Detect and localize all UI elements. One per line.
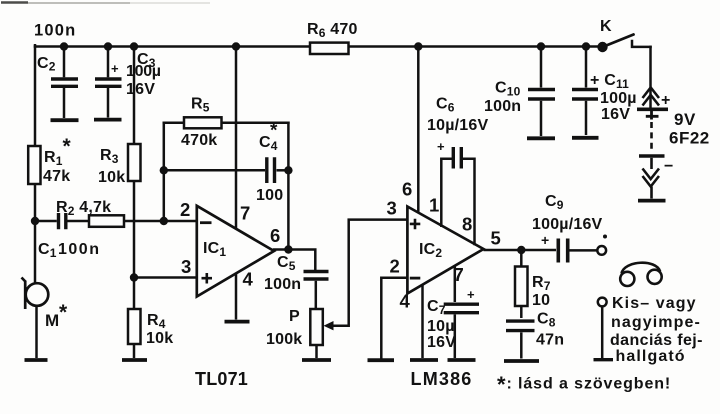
- label IC1 pin 6: [270, 225, 280, 246]
- wire top supply rail left segment: [35, 45, 310, 48]
- svg-text:100k: 100k: [266, 331, 302, 348]
- label R2 4,7k: [56, 199, 111, 218]
- svg-text:470k: 470k: [181, 132, 217, 149]
- battery BT1 cell1 long plate: [637, 108, 668, 112]
- battery BT1 cell1 short plate: [646, 111, 659, 120]
- svg-text:100µ: 100µ: [600, 90, 637, 107]
- capacitor C2 lead bottom: [63, 88, 66, 118]
- svg-text:IC2: IC2: [419, 241, 442, 260]
- ground return terminal: [594, 358, 614, 361]
- ground C10: [527, 136, 555, 140]
- svg-text:+: +: [437, 139, 445, 154]
- label C3 value 100u: [126, 63, 161, 80]
- label TL071: [195, 369, 248, 389]
- capacitor C2: [51, 79, 78, 86]
- wire feedback left vertical: [163, 123, 166, 221]
- ground IC2 pin4: [410, 358, 438, 362]
- ground mic: [25, 358, 48, 362]
- svg-text:1: 1: [429, 195, 439, 216]
- ground C3: [94, 118, 122, 122]
- ground IC1 pin4: [225, 320, 250, 324]
- wire IC1 output: [274, 250, 315, 270]
- label IC1 pin 7: [240, 203, 250, 224]
- label C6 polarity +: [437, 139, 445, 154]
- svg-text:16V: 16V: [126, 81, 155, 98]
- op-amp IC1 TL071: [197, 206, 274, 297]
- junction rail/C2: [60, 42, 68, 50]
- svg-text:5: 5: [491, 228, 501, 249]
- wire C8 to ground: [520, 332, 523, 358]
- junction R1/C1/mic: [31, 217, 39, 225]
- junction rail/R3: [130, 42, 138, 50]
- capacitor C3 lead bottom: [107, 88, 110, 118]
- label C7 polarity +: [467, 287, 475, 302]
- wire rail left drop to R1: [34, 45, 37, 146]
- svg-text:10k: 10k: [146, 330, 173, 347]
- IC1 minus input mark: [200, 221, 212, 224]
- svg-text:*: lásd a szövegben!: *: lásd a szövegben!: [497, 372, 671, 397]
- svg-text:100n: 100n: [58, 241, 100, 258]
- junction feedback right / C4: [284, 166, 292, 174]
- wire R2 to IC1 pin2: [124, 220, 196, 223]
- ground C2: [51, 118, 79, 122]
- capacitor C10 lead bottom: [540, 101, 543, 136]
- svg-text:10µ: 10µ: [427, 318, 455, 335]
- ground IC2 pin2: [368, 358, 395, 362]
- capacitor C9: [558, 239, 567, 263]
- headphone icon: [620, 263, 662, 286]
- label C8 value 47n: [536, 332, 564, 349]
- label IC1 pin 3: [181, 256, 191, 277]
- junction output/R7: [517, 246, 525, 254]
- label C4 value 100: [256, 187, 283, 204]
- svg-text:100µ/16V: 100µ/16V: [532, 216, 603, 233]
- label battery minus: [664, 158, 674, 175]
- switch K right contact: [632, 41, 651, 47]
- battery BT1 plus clip arrow: [643, 88, 660, 106]
- svg-text:R3: R3: [100, 147, 119, 166]
- IC2 minus input mark: [410, 277, 421, 280]
- wire IC2 pin6 riser: [417, 47, 420, 214]
- label R1: [44, 135, 72, 168]
- capacitor C1: [59, 213, 66, 229]
- potentiometer P wiper arrow: [324, 321, 349, 330]
- battery ground bar: [638, 199, 666, 203]
- junction rail/C11: [582, 42, 590, 50]
- svg-text:R1: R1: [44, 149, 63, 168]
- junction rail/C3: [104, 42, 112, 50]
- label R3 value 10k: [98, 169, 125, 186]
- capacitor C7: [444, 304, 479, 313]
- capacitor C3 lead top: [107, 47, 110, 78]
- junction IC1 output / feedback: [284, 245, 292, 253]
- resistor R5: [184, 117, 222, 128]
- label C10 value 100n: [484, 98, 521, 115]
- svg-text:7: 7: [454, 264, 464, 285]
- junction rail/C10: [537, 42, 545, 50]
- wire C4 branch left: [164, 169, 265, 172]
- svg-text:R5: R5: [191, 96, 210, 115]
- label K: [600, 18, 612, 35]
- svg-text:C6: C6: [436, 96, 455, 115]
- wire mic node to C1: [35, 220, 57, 223]
- label C11 value 100u: [600, 90, 637, 107]
- label IC1 pin 4: [243, 269, 254, 290]
- label C11 with +: [590, 72, 629, 91]
- node output terminal hot: [597, 246, 606, 255]
- svg-text:8: 8: [462, 214, 472, 235]
- capacitor C2 lead top: [63, 47, 66, 78]
- battery BT1 dashed link: [650, 122, 653, 152]
- wire C5 to P: [315, 281, 318, 309]
- svg-text:100n: 100n: [484, 98, 521, 115]
- label C10: [495, 80, 521, 99]
- svg-text:+: +: [467, 287, 475, 302]
- wire IC2 pin4 drop: [421, 285, 424, 358]
- label C9: [545, 193, 564, 212]
- svg-text:100n: 100n: [34, 22, 76, 40]
- label R4: [147, 312, 166, 331]
- switch K blade: [603, 35, 634, 48]
- svg-text:*: *: [59, 301, 68, 324]
- wire R4 to ground: [133, 344, 136, 358]
- label 9V: [674, 110, 696, 129]
- capacitor C10: [528, 90, 555, 100]
- svg-text:16V: 16V: [427, 334, 456, 351]
- svg-text:47k: 47k: [43, 168, 70, 185]
- svg-text:C9: C9: [545, 193, 564, 212]
- wire IC1 pin4 drop: [235, 274, 238, 320]
- label C2: [37, 55, 56, 74]
- capacitor C5: [304, 272, 329, 280]
- label headphone text line3: [610, 332, 703, 349]
- svg-text:R2 4,7k: R2 4,7k: [56, 199, 111, 218]
- label C1: [38, 241, 57, 260]
- label IC2: [419, 241, 442, 260]
- battery BT1 cell2 long plate: [639, 154, 665, 158]
- svg-text:16V: 16V: [601, 106, 630, 123]
- wire IC1 pin7 riser: [235, 47, 238, 230]
- wire C1 to R2: [68, 220, 90, 223]
- junction feedback left / C4 branch: [160, 166, 168, 174]
- label R3: [100, 147, 119, 166]
- label IC2 pin 4: [400, 291, 411, 312]
- svg-text:2: 2: [390, 256, 400, 277]
- wire R7 top lead: [520, 250, 523, 267]
- svg-text:*: *: [270, 121, 278, 142]
- svg-text:4: 4: [400, 291, 411, 312]
- wire R3 column top: [133, 47, 136, 145]
- label R6 470: [307, 21, 358, 40]
- label headphone text line2: [611, 314, 701, 331]
- label C3 polarity +: [111, 61, 119, 76]
- battery BT1 bottom stem: [650, 187, 653, 199]
- switch K pivot: [597, 42, 607, 52]
- svg-text:10k: 10k: [98, 169, 125, 186]
- svg-text:K: K: [600, 18, 612, 35]
- wire IC2 pin1 riser: [441, 159, 451, 226]
- label C6: [436, 96, 455, 115]
- wire top supply rail right segment: [348, 45, 603, 48]
- svg-text:−: −: [664, 158, 674, 175]
- svg-text:7: 7: [240, 203, 250, 224]
- svg-text:danciás fej-: danciás fej-: [610, 332, 703, 349]
- svg-text:10µ/16V: 10µ/16V: [427, 117, 488, 134]
- svg-text:10: 10: [532, 292, 550, 309]
- wire feedback right vertical: [287, 123, 290, 250]
- label R5 value 470k: [181, 132, 217, 149]
- junction bias node / IC1 pin3: [130, 273, 138, 281]
- svg-text:+: +: [661, 92, 671, 109]
- label P value 100k: [266, 331, 302, 348]
- resistor R6: [310, 43, 349, 54]
- label IC1 pin 2: [180, 199, 190, 220]
- capacitor C11 electrolytic: [572, 90, 598, 100]
- label C3: [137, 51, 156, 70]
- junction rail/IC1 pin7: [232, 42, 240, 50]
- label P: [289, 308, 300, 325]
- label C5 value 100n: [264, 276, 301, 293]
- svg-text:M: M: [45, 311, 59, 330]
- label C11 value 16V: [601, 106, 630, 123]
- svg-text:Kis– vagy: Kis– vagy: [612, 295, 697, 312]
- capacitor C4: [267, 157, 275, 183]
- wire R7 to C8: [520, 306, 523, 318]
- capacitor C6: [453, 147, 461, 169]
- scan edge line top: [1, 1, 210, 4]
- svg-text:+ C11: + C11: [590, 72, 629, 91]
- svg-text:R6 470: R6 470: [307, 21, 358, 40]
- svg-text:3: 3: [181, 256, 191, 277]
- junction rail/IC2 pin6: [414, 42, 422, 50]
- label IC2 pin 8: [462, 214, 472, 235]
- svg-text:2: 2: [180, 199, 190, 220]
- svg-text:TL071: TL071: [195, 369, 248, 389]
- label IC2 pin 6: [402, 179, 412, 200]
- label headphone text line1: [612, 295, 697, 312]
- svg-text:47n: 47n: [536, 332, 564, 349]
- node output terminal return: [598, 298, 607, 307]
- resistor R7: [515, 267, 528, 307]
- label IC2 pin 1: [429, 195, 439, 216]
- svg-text:100µ: 100µ: [126, 63, 161, 80]
- ground P: [302, 358, 331, 362]
- svg-text:100n: 100n: [264, 276, 301, 293]
- svg-text:hallgató: hallgató: [616, 348, 686, 365]
- label IC1: [203, 240, 226, 259]
- svg-text:4: 4: [243, 269, 254, 290]
- resistor R2: [89, 215, 124, 227]
- svg-text:C2: C2: [37, 55, 56, 74]
- svg-text:nagyimpe-: nagyimpe-: [611, 314, 701, 331]
- svg-text:9V: 9V: [674, 110, 696, 129]
- battery BT1 minus clip arrow: [643, 169, 660, 187]
- ground C7: [448, 358, 476, 362]
- wire C9 to output terminal: [570, 249, 597, 252]
- label C9 polarity +: [541, 232, 549, 248]
- potentiometer P: [310, 309, 323, 345]
- resistor R3: [128, 144, 141, 181]
- capacitor C10 lead top: [540, 47, 543, 88]
- label C7 value 10u: [427, 318, 455, 335]
- label R1 value 47k: [43, 168, 70, 185]
- label IC2 pin 7: [454, 264, 464, 285]
- capacitor C11 lead top: [585, 47, 588, 88]
- label IC2 pin 5: [491, 228, 501, 249]
- wire IC2 pin8 riser: [463, 159, 475, 244]
- wire P to ground: [315, 345, 318, 358]
- wire battery feed: [649, 47, 652, 107]
- capacitor C8: [506, 321, 535, 331]
- label footnote asterisk note: [497, 372, 671, 397]
- ground C8: [504, 359, 539, 363]
- battery BT1 cell2 stem: [650, 158, 653, 169]
- label R5: [191, 96, 210, 115]
- svg-text:*: *: [63, 135, 72, 158]
- svg-text:C7: C7: [427, 298, 446, 317]
- svg-text:C8: C8: [537, 311, 556, 330]
- svg-text:6: 6: [270, 225, 280, 246]
- label 6F22: [669, 129, 710, 148]
- label IC2 pin 2: [390, 256, 400, 277]
- label C4: [259, 121, 278, 154]
- wire C4 branch right: [277, 169, 289, 172]
- label R7: [532, 274, 551, 293]
- wire wiper riser to IC2 pin3: [349, 220, 407, 326]
- svg-text:6F22: 6F22: [669, 129, 710, 148]
- svg-text:+: +: [541, 232, 549, 248]
- svg-text:R7: R7: [532, 274, 551, 293]
- wire IC2 pin2 to ground: [381, 278, 406, 358]
- svg-text:100: 100: [256, 187, 283, 204]
- label C3 value 16V: [126, 81, 155, 98]
- ground C11: [572, 136, 599, 140]
- wire IC2 pin7 drop: [454, 267, 457, 303]
- resistor R1: [28, 146, 40, 184]
- label C1 value 100n: [58, 241, 100, 258]
- label LM386: [411, 369, 473, 389]
- svg-text:C1: C1: [38, 241, 57, 260]
- svg-text:6: 6: [402, 179, 412, 200]
- ground R4: [122, 358, 147, 362]
- op-amp IC2 LM386: [407, 207, 483, 294]
- label R4 value 10k: [146, 330, 173, 347]
- label 100n (C2 value): [34, 22, 76, 40]
- wire R3 to R4: [133, 181, 136, 309]
- svg-text:C10: C10: [495, 80, 521, 99]
- capacitor C11 lead bottom: [585, 101, 588, 135]
- label C7: [427, 298, 446, 317]
- label R7 value 10: [532, 292, 550, 309]
- svg-text:LM386: LM386: [411, 369, 473, 389]
- wire R1 to C1 node: [34, 184, 37, 284]
- label M: [45, 301, 68, 330]
- resistor R4: [128, 309, 141, 344]
- wire feedback top horizontal: [164, 122, 289, 125]
- capacitor C3 electrolytic: [95, 79, 122, 86]
- svg-text:P: P: [289, 308, 300, 325]
- label C9 value 100u/16V: [532, 216, 603, 233]
- svg-text:R4: R4: [147, 312, 166, 331]
- svg-text:IC1: IC1: [203, 240, 226, 259]
- label IC2 pin 3: [387, 198, 397, 219]
- wire IC1 pin3 from bias node: [134, 276, 196, 279]
- IC2 plus input mark: [410, 219, 421, 230]
- wire IC2 output pin5: [484, 249, 557, 252]
- label C8: [537, 311, 556, 330]
- label C5: [277, 254, 296, 273]
- wire mic to ground: [35, 306, 38, 358]
- label headphone text line4: [616, 348, 686, 365]
- svg-text:C5: C5: [277, 254, 296, 273]
- wire return terminal to ground: [601, 307, 604, 359]
- footnote dot at output: [603, 235, 607, 239]
- label battery +: [661, 92, 671, 109]
- label C7 value 16V: [427, 334, 456, 351]
- label C6 value 10u/16V: [427, 117, 488, 134]
- wire C7 to ground: [454, 315, 457, 359]
- svg-text:3: 3: [387, 198, 397, 219]
- IC1 plus input mark: [202, 273, 213, 284]
- svg-text:+: +: [111, 61, 119, 76]
- junction feedback/pin2: [160, 217, 168, 225]
- microphone M: [22, 278, 49, 310]
